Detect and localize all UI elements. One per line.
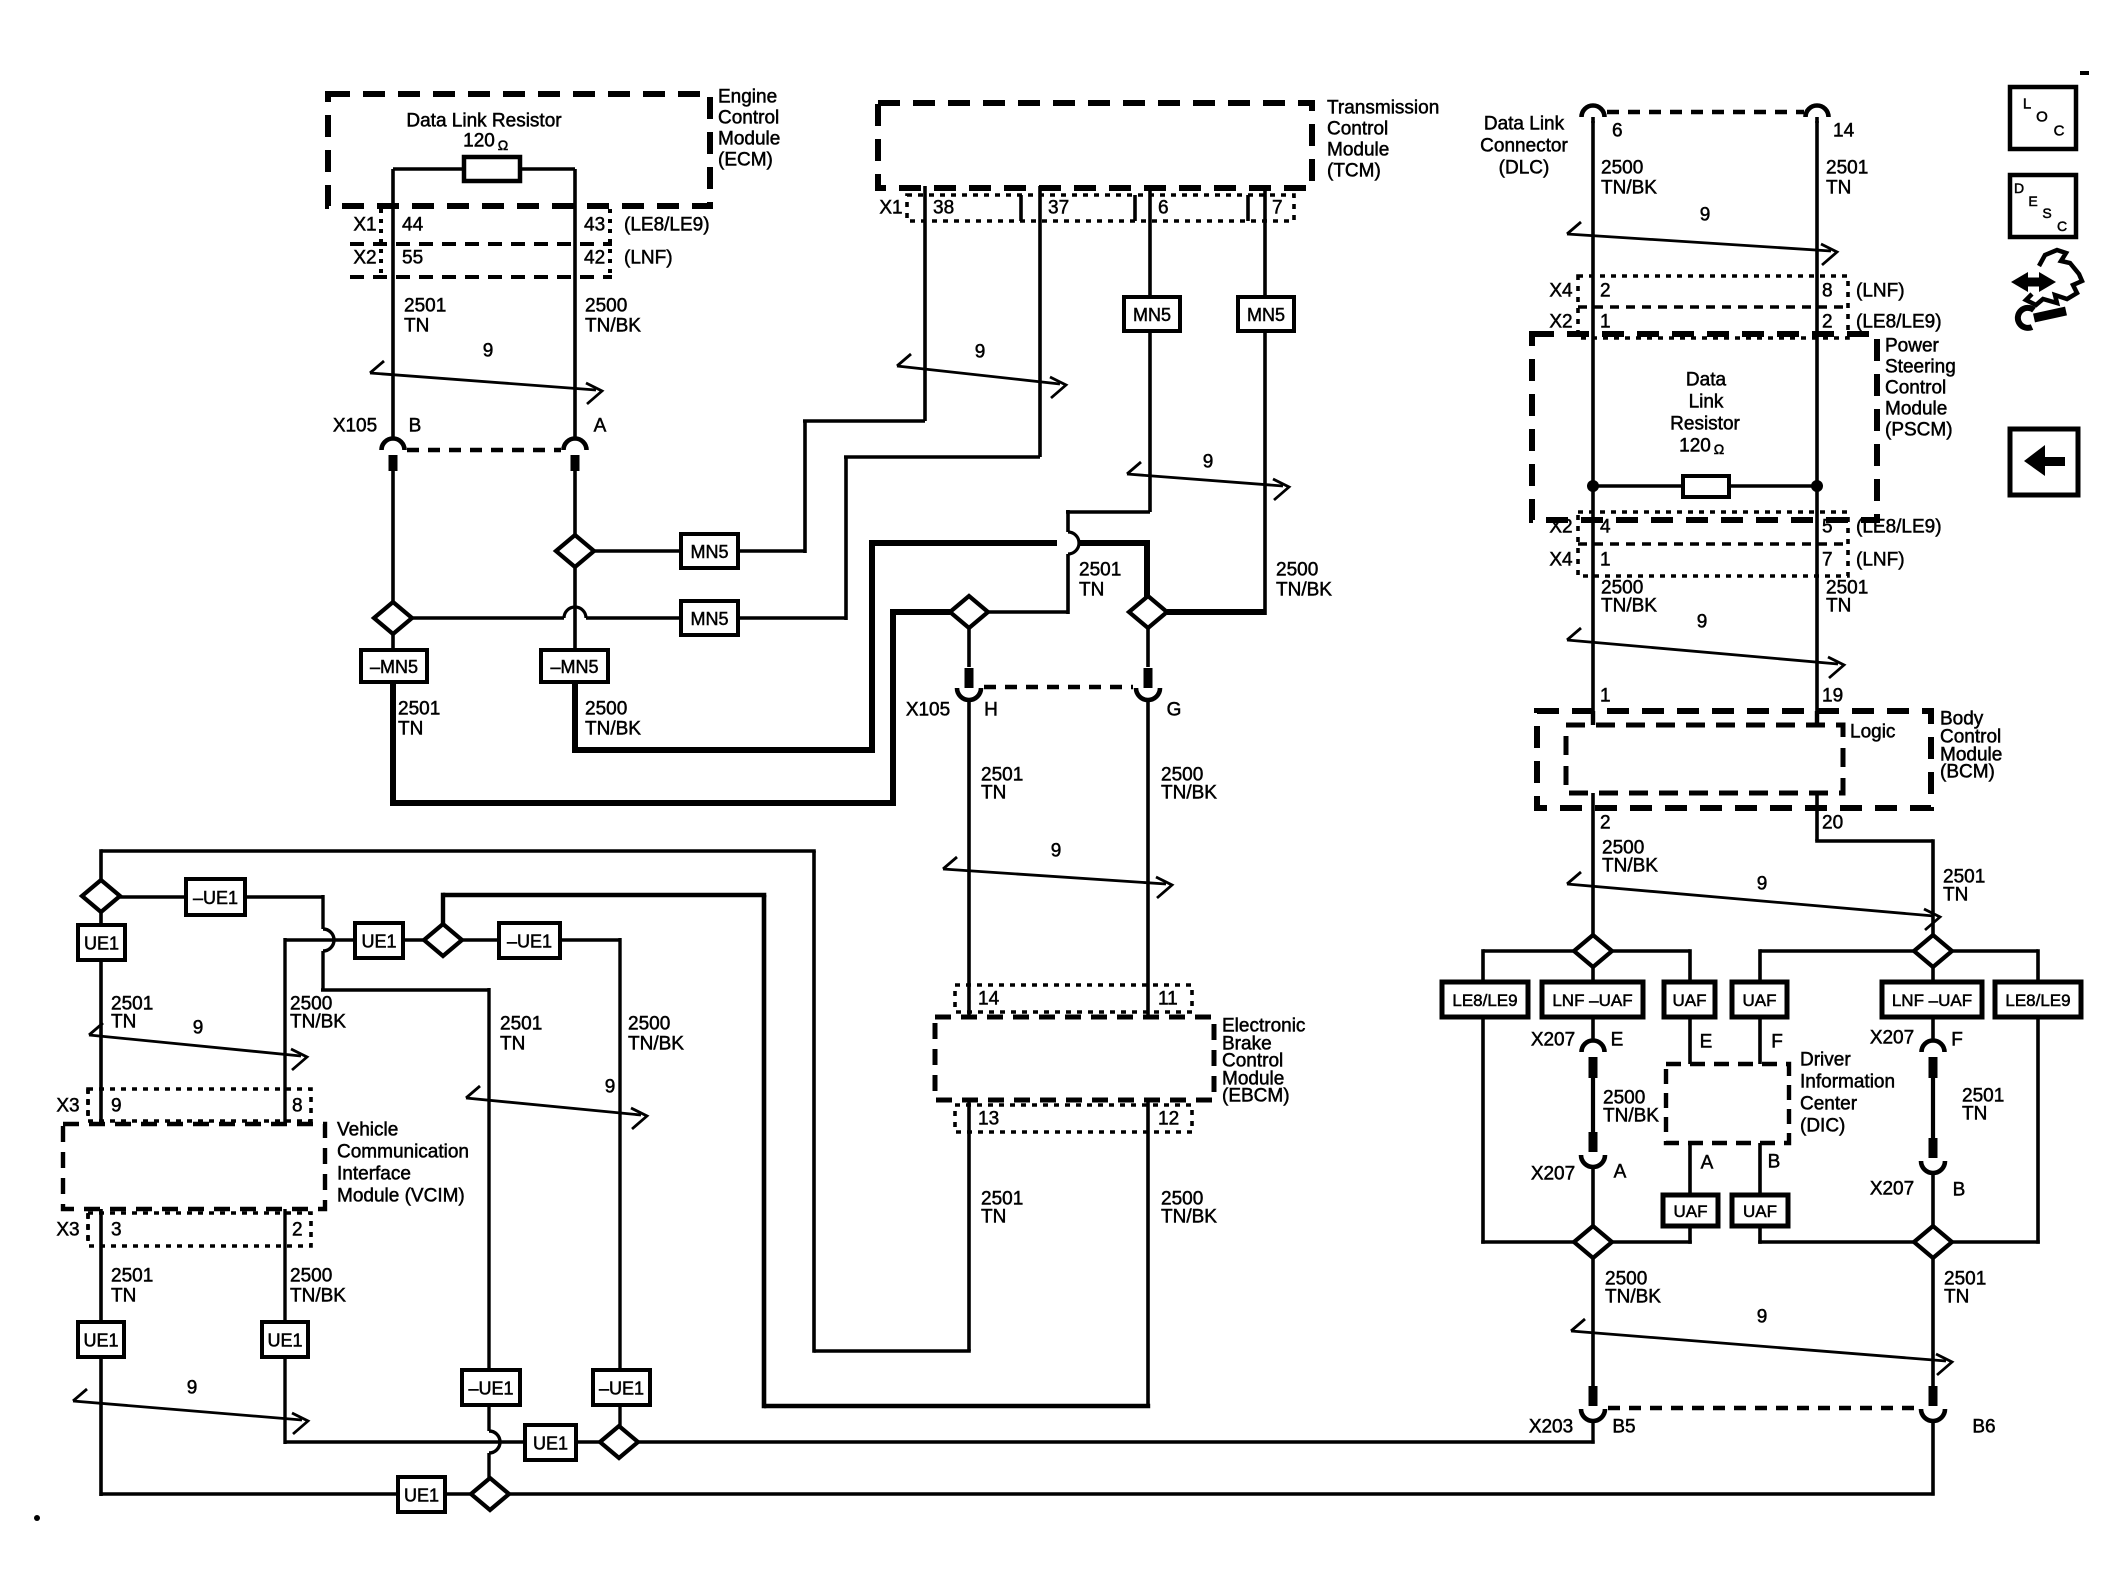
- svg-text:2500: 2500: [585, 296, 627, 317]
- svg-text:9: 9: [1700, 205, 1711, 226]
- svg-text:F: F: [1951, 1030, 1963, 1051]
- svg-text:Center: Center: [1800, 1094, 1858, 1115]
- wire 2501 TN from ECM pin 44/55 down to X105 B: [391, 169, 395, 439]
- svg-text:–MN5: –MN5: [370, 657, 418, 677]
- in-line connector UE1 (2501 bottom): [78, 1322, 124, 1357]
- svg-text:Communication: Communication: [337, 1142, 469, 1163]
- svg-text:–MN5: –MN5: [550, 657, 598, 677]
- svg-text:X1: X1: [879, 198, 902, 219]
- svg-text:2501: 2501: [1826, 158, 1868, 179]
- svg-text:(EBCM): (EBCM): [1222, 1086, 1290, 1107]
- wire 2500 TN/BK from ECM pin 43/42 down to X105 A: [573, 169, 577, 439]
- dashed link X105 B-A: [407, 448, 561, 453]
- svg-text:B: B: [1953, 1180, 1966, 1201]
- svg-text:(ECM): (ECM): [718, 150, 773, 171]
- wire: -UE1 drop to splice S12: [618, 1405, 621, 1428]
- connector X203 pin B5 (pin + cup): [1589, 1386, 1598, 1406]
- VCIM pin row top (X3 9/8): [88, 1089, 311, 1121]
- svg-text:UE1: UE1: [533, 1434, 568, 1454]
- wire 2501 TN UE1 down to B6 rail: [99, 1357, 103, 1496]
- twisted pair marker 9 (ECM wires): [370, 373, 596, 390]
- svg-text:2501: 2501: [404, 296, 446, 317]
- svg-text:X105: X105: [333, 416, 377, 437]
- wire: ECM resistor left lead: [393, 167, 464, 171]
- wire: X207 B to splice S10: [1931, 1173, 1935, 1228]
- svg-text:2500: 2500: [1601, 158, 1643, 179]
- svg-text:–UE1: –UE1: [507, 932, 552, 952]
- svg-text:X2: X2: [353, 248, 376, 269]
- svg-text:TN/BK: TN/BK: [290, 1286, 346, 1307]
- icon: LOC box: [2010, 87, 2076, 149]
- option tag UAF (DIC B): [1732, 1195, 1788, 1226]
- svg-text:Link: Link: [1689, 392, 1724, 413]
- svg-text:X203: X203: [1529, 1417, 1573, 1438]
- PSCM pin rows X4/X2 (2/8, 1/2): [1578, 276, 1848, 338]
- svg-text:(LNF): (LNF): [1856, 281, 1905, 302]
- in-line connector MN5 (TCM pin 6): [1124, 297, 1180, 331]
- svg-text:4: 4: [1600, 517, 1611, 538]
- wire: S1 down to -MN5: [391, 634, 395, 650]
- svg-text:1: 1: [1600, 550, 1611, 571]
- svg-text:14: 14: [1833, 121, 1855, 142]
- svg-text:MN5: MN5: [1247, 305, 1285, 325]
- wire: S4 to TCM pin 7: [1167, 609, 1265, 615]
- svg-text:L: L: [2023, 96, 2031, 113]
- in-line connector UE1 (2501 VCIM): [78, 925, 125, 960]
- junction dot left (PSCM resistor): [1587, 480, 1599, 492]
- wire: PSCM resistor leads: [1593, 484, 1683, 488]
- svg-text:9: 9: [1757, 874, 1768, 895]
- wire 2500 TN/BK from EBCM pin 12: [1146, 1100, 1150, 1406]
- svg-text:X207: X207: [1531, 1030, 1575, 1051]
- PSCM pin rows X2/X4 (4/5, 1/7): [1578, 512, 1848, 576]
- bypass connector -UE1 (2500): [499, 923, 560, 958]
- svg-text:–UE1: –UE1: [193, 888, 238, 908]
- svg-text:TN/BK: TN/BK: [1601, 178, 1657, 199]
- wire 2500 TN/BK corner to VCIM pin 8: [283, 938, 286, 1124]
- wire 2500 TN/BK VCIM pin 2 down: [283, 1209, 286, 1322]
- connector X105 pin A (half circle + pin): [564, 439, 587, 451]
- splice S2 (diamond on 2500 at y551): [556, 535, 594, 567]
- dashed link X203 B5-B6: [1608, 1406, 1918, 1411]
- svg-text:TN: TN: [111, 1286, 136, 1307]
- svg-text:F: F: [1771, 1032, 1783, 1053]
- svg-text:43: 43: [584, 215, 605, 236]
- svg-text:UAF: UAF: [1743, 1202, 1777, 1221]
- twisted pair marker 9 (DLC wires): [1567, 234, 1831, 251]
- svg-text:C: C: [2054, 123, 2065, 140]
- wire: S6 to -UE1 to drop: [462, 938, 499, 941]
- wire 2500 TN/BK UE1 down to B5 rail: [283, 1357, 286, 1444]
- connector X207 pin B (pin + cup): [1929, 1138, 1938, 1158]
- svg-text:2: 2: [1600, 813, 1611, 834]
- in-line connector UE1 (B5 rail): [525, 1425, 576, 1460]
- svg-text:C: C: [2057, 218, 2067, 234]
- svg-text:TN/BK: TN/BK: [585, 316, 641, 337]
- svg-text:Driver: Driver: [1800, 1050, 1851, 1071]
- svg-text:X207: X207: [1870, 1028, 1914, 1049]
- svg-text:Logic: Logic: [1850, 722, 1895, 743]
- EBCM pin row bottom (13/12): [955, 1105, 1192, 1132]
- bypass connector -UE1 (2501): [186, 879, 245, 915]
- twisted pair marker 9 (EBCM wires): [943, 869, 1166, 884]
- module box: Driver Information Center (DIC): [1666, 1064, 1789, 1143]
- wire: MN5 to corner: [738, 549, 805, 553]
- connector X207 pin E (half circle + pin): [1582, 1041, 1605, 1053]
- svg-text:TN/BK: TN/BK: [1605, 1287, 1661, 1308]
- splice S4 (diamond 2500 near X105 G): [1129, 596, 1167, 628]
- svg-text:1: 1: [1600, 686, 1611, 707]
- wire: riser to TCM pin 38: [803, 421, 807, 553]
- svg-text:Control: Control: [718, 108, 779, 129]
- module box: Body Control Module (BCM): [1537, 711, 1931, 808]
- svg-text:9: 9: [483, 341, 494, 362]
- svg-text:TN/BK: TN/BK: [628, 1034, 684, 1055]
- svg-text:2500: 2500: [628, 1014, 670, 1035]
- connector X105 pin H (pin + cup): [965, 668, 974, 688]
- svg-text:2: 2: [1822, 312, 1833, 333]
- wire: S7 right branch to UAF: [1612, 949, 1690, 953]
- connector DLC pin 6 (half circle): [1582, 106, 1605, 118]
- wire: S7 down to LNF-UAF: [1591, 967, 1595, 982]
- wire: UAF down to S9 branch: [1688, 1226, 1692, 1244]
- svg-text:UAF: UAF: [1673, 991, 1707, 1010]
- svg-text:Module (VCIM): Module (VCIM): [337, 1186, 465, 1207]
- twisted pair marker 9 (TCM 38/37): [897, 366, 1060, 384]
- svg-text:TN: TN: [1944, 1287, 1969, 1308]
- svg-text:A: A: [594, 416, 607, 437]
- junction dot right (PSCM resistor): [1811, 480, 1823, 492]
- wire 2501 TN DLC-14 to BCM pin 19: [1815, 121, 1819, 711]
- svg-text:Ω: Ω: [498, 137, 508, 153]
- svg-text:Steering: Steering: [1885, 357, 1956, 378]
- svg-text:2501: 2501: [111, 1266, 153, 1287]
- twisted pair marker 9 (X203 wires): [1571, 1331, 1946, 1361]
- svg-text:LE8/LE9: LE8/LE9: [1452, 991, 1517, 1010]
- wire 2501 TN bypass loop to splice S3: [390, 682, 396, 803]
- svg-text:Vehicle: Vehicle: [337, 1120, 398, 1141]
- svg-text:TN/BK: TN/BK: [1602, 856, 1658, 877]
- wire: S1 right toward MN5 (hops 2500 wire): [412, 616, 564, 620]
- twisted pair marker 9 (mid risers): [466, 1098, 641, 1115]
- splice S5 (diamond 2501 top-left): [82, 880, 120, 912]
- svg-text:LE8/LE9: LE8/LE9: [2005, 991, 2070, 1010]
- in-line connector MN5 (2500 to TCM 38): [681, 534, 738, 568]
- wire: left LE8/LE9 drop to S9 branch: [1481, 1017, 1485, 1244]
- svg-text:TN: TN: [1943, 885, 1968, 906]
- wire 2501 TN from EBCM pin 13: [967, 1100, 971, 1351]
- wire: S7 left branch to LE8/LE9: [1483, 949, 1574, 953]
- svg-text:X3: X3: [56, 1220, 79, 1241]
- logic box inside BCM: [1566, 725, 1843, 793]
- svg-text:6: 6: [1158, 198, 1169, 219]
- wire: DIC pin A to UAF: [1688, 1143, 1692, 1195]
- connector X105 pin B (half circle + pin): [382, 439, 405, 451]
- svg-text:TN: TN: [981, 1207, 1006, 1228]
- svg-text:44: 44: [402, 215, 424, 236]
- wire 2501 TN X207 F to B: [1931, 1078, 1935, 1138]
- svg-text:3: 3: [111, 1220, 122, 1241]
- bypass connector -MN5 (2501): [361, 650, 427, 682]
- svg-text:Data Link: Data Link: [1484, 114, 1565, 135]
- twisted pair marker 9 (below BCM): [1567, 884, 1934, 916]
- svg-text:X207: X207: [1870, 1179, 1914, 1200]
- svg-text:TN/BK: TN/BK: [1161, 1207, 1217, 1228]
- wire 2501 TN UE1 to VCIM pin 9: [99, 960, 103, 1124]
- option tag LNF -UAF (left): [1542, 982, 1643, 1017]
- EBCM pin row top (14/11): [955, 985, 1192, 1012]
- wire: UAF to DIC pin F: [1758, 1017, 1762, 1064]
- wire: DIC pin B to UAF: [1758, 1143, 1762, 1195]
- in-line connector UE1 (2500 bottom): [262, 1322, 308, 1357]
- svg-text:(LE8/LE9): (LE8/LE9): [1856, 517, 1942, 538]
- svg-text:13: 13: [978, 1109, 999, 1130]
- svg-text:TN: TN: [111, 1012, 136, 1033]
- svg-text:Ω: Ω: [1714, 441, 1724, 457]
- connector X105 pin G (pin + cup): [1144, 668, 1153, 688]
- wire: S5 to -UE1 and riser: [120, 895, 186, 898]
- bypass connector -MN5 (2500): [541, 650, 608, 682]
- svg-text:(DIC): (DIC): [1800, 1116, 1845, 1137]
- svg-text:TN/BK: TN/BK: [1161, 783, 1217, 804]
- splice S1 (diamond on 2501 at y618): [374, 602, 412, 634]
- wire: LNF-UAF to X207 E: [1591, 1017, 1595, 1041]
- svg-text:(LE8/LE9): (LE8/LE9): [1856, 312, 1942, 333]
- svg-text:LNF –UAF: LNF –UAF: [1892, 991, 1972, 1010]
- svg-text:TN/BK: TN/BK: [1601, 596, 1657, 617]
- svg-text:42: 42: [584, 248, 605, 269]
- svg-text:Information: Information: [1800, 1072, 1895, 1093]
- connector X207 pin A (pin + cup): [1589, 1132, 1598, 1152]
- wire 2500 TN/BK DLC-6 to BCM pin 1: [1591, 121, 1595, 711]
- icon: back arrow box: [2010, 429, 2078, 495]
- svg-text:E: E: [1611, 1030, 1624, 1051]
- connector X203 pin B6 (pin + cup): [1929, 1386, 1938, 1406]
- svg-text:TN: TN: [1826, 596, 1851, 617]
- svg-text:X207: X207: [1531, 1164, 1575, 1185]
- wire: -UE1 riser hops UE1 wire, to corner: [323, 929, 334, 951]
- wire: S8 right branch to LE8/LE9: [1952, 949, 2038, 953]
- svg-text:11: 11: [1158, 989, 1178, 1010]
- svg-text:MN5: MN5: [1133, 305, 1171, 325]
- svg-text:TN: TN: [1079, 580, 1104, 601]
- svg-text:B: B: [409, 416, 422, 437]
- svg-text:TN: TN: [1826, 178, 1851, 199]
- svg-text:2501: 2501: [500, 1014, 542, 1035]
- svg-text:(BCM): (BCM): [1940, 762, 1995, 783]
- svg-text:9: 9: [1203, 452, 1214, 473]
- svg-text:120: 120: [463, 131, 495, 152]
- svg-text:9: 9: [605, 1077, 616, 1098]
- wire 2500 TN/BK X207 E to A: [1591, 1078, 1595, 1132]
- wire B6 rail 2501 TN: [99, 1492, 398, 1496]
- svg-text:UE1: UE1: [361, 932, 396, 952]
- svg-text:9: 9: [187, 1378, 198, 1399]
- wire: S3 to riser of TCM pin 6: [988, 610, 1068, 614]
- wire 2501 TN X105 H to EBCM pin 14: [967, 700, 971, 1017]
- svg-text:Power: Power: [1885, 336, 1940, 357]
- icon: diagnostic double-arrow with wrench: [2011, 250, 2082, 328]
- in-line connector MN5 (TCM pin 7): [1238, 297, 1294, 331]
- svg-text:20: 20: [1822, 813, 1843, 834]
- svg-text:2: 2: [292, 1220, 303, 1241]
- svg-text:Module: Module: [1885, 399, 1947, 420]
- wire: S2 down to -MN5: [573, 567, 577, 650]
- svg-text:Module: Module: [718, 129, 780, 150]
- svg-text:TN: TN: [500, 1034, 525, 1055]
- wire: S8 left branch to UAF: [1760, 949, 1914, 953]
- svg-text:(LNF): (LNF): [1856, 550, 1905, 571]
- svg-text:B: B: [1768, 1152, 1781, 1173]
- splice S6 (diamond 2500 mid-row): [424, 924, 462, 956]
- wire: UE1 row horizontal: [285, 938, 355, 941]
- stray dot mark (bottom left): [34, 1515, 40, 1521]
- svg-text:6: 6: [1612, 121, 1623, 142]
- svg-text:X2: X2: [1549, 517, 1572, 538]
- wire: -UE1 drop to splice S11 (hops B5 rail): [487, 1405, 490, 1431]
- TCM pin row X1 (38/37/6/7): [907, 195, 1294, 221]
- wire 2501 TN X105 B to splice S1: [391, 471, 395, 602]
- in-line connector UE1 (2500 mid): [355, 923, 403, 958]
- wire: UAF down to S10 branch: [1758, 1226, 1762, 1244]
- svg-text:9: 9: [1757, 1307, 1768, 1328]
- svg-text:B6: B6: [1972, 1417, 1995, 1438]
- resistor R-PSCM 120 ohm body: [1683, 476, 1729, 497]
- wire: S3 down to X105 H: [967, 628, 971, 667]
- svg-text:2: 2: [1600, 281, 1611, 302]
- VCIM pin row bottom (X3 3/2): [88, 1213, 311, 1246]
- svg-text:E: E: [2028, 193, 2037, 209]
- splice S8 (diamond 2501 right): [1914, 935, 1952, 967]
- svg-text:2500: 2500: [1276, 560, 1318, 581]
- svg-text:38: 38: [933, 198, 954, 219]
- svg-text:UE1: UE1: [404, 1486, 439, 1506]
- svg-text:TN: TN: [1962, 1104, 1987, 1125]
- svg-text:(PSCM): (PSCM): [1885, 420, 1953, 441]
- module box: Power Steering Control Module (PSCM): [1532, 334, 1877, 520]
- svg-text:Interface: Interface: [337, 1164, 411, 1185]
- svg-text:UAF: UAF: [1743, 991, 1777, 1010]
- dashed link X105 H-G: [984, 685, 1133, 690]
- svg-text:H: H: [984, 700, 998, 721]
- svg-text:5: 5: [1822, 517, 1833, 538]
- in-line connector MN5 (2501 to TCM 37): [681, 601, 738, 635]
- ECM pin rows divider lines: [350, 242, 612, 246]
- splice S3 (diamond 2501 near X105 H): [950, 596, 988, 628]
- svg-text:TN: TN: [404, 316, 429, 337]
- module box: Transmission Control Module (TCM): [878, 103, 1312, 188]
- wire 2501 TN loop EBCM-13 to top-left rail: [814, 1349, 971, 1353]
- connector DLC pin 14 (half circle): [1806, 106, 1829, 118]
- svg-text:12: 12: [1158, 1109, 1179, 1130]
- wire: S5 down to UE1: [99, 912, 103, 925]
- svg-text:E: E: [1700, 1032, 1713, 1053]
- svg-text:B5: B5: [1612, 1417, 1635, 1438]
- splice S11 (diamond on B6 rail): [471, 1478, 509, 1510]
- svg-text:9: 9: [193, 1018, 204, 1039]
- wire 2500 TN/BK X105 G to EBCM pin 11: [1146, 700, 1150, 1017]
- option tag UAF (right): [1732, 982, 1787, 1017]
- dashed link DLC 6-14: [1607, 110, 1804, 115]
- svg-text:7: 7: [1272, 198, 1283, 219]
- svg-text:TN/BK: TN/BK: [1603, 1106, 1659, 1127]
- wire 2500 TN/BK bypass loop to splice S4: [572, 682, 578, 750]
- svg-text:MN5: MN5: [690, 542, 728, 562]
- svg-text:9: 9: [975, 342, 986, 363]
- svg-text:9: 9: [1697, 612, 1708, 633]
- wire 2501 TN VCIM pin 3 down: [99, 1209, 103, 1322]
- stray tick mark (top right): [2080, 71, 2089, 75]
- svg-text:X2: X2: [1549, 312, 1572, 333]
- svg-text:37: 37: [1048, 198, 1069, 219]
- svg-text:9: 9: [111, 1096, 122, 1117]
- svg-text:UE1: UE1: [267, 1331, 302, 1351]
- svg-text:Engine: Engine: [718, 87, 777, 108]
- svg-text:1: 1: [1600, 312, 1611, 333]
- svg-text:(TCM): (TCM): [1327, 161, 1381, 182]
- svg-text:9: 9: [1051, 841, 1062, 862]
- svg-text:TN: TN: [398, 719, 423, 740]
- svg-text:14: 14: [978, 989, 1000, 1010]
- svg-text:55: 55: [402, 248, 423, 269]
- icon: DESC box: [2010, 175, 2076, 237]
- svg-text:TN/BK: TN/BK: [1276, 580, 1332, 601]
- svg-text:Resistor: Resistor: [1670, 414, 1740, 435]
- wire: X207 A to splice S9: [1591, 1167, 1595, 1228]
- wire: S8 down to LNF-UAF: [1931, 967, 1935, 982]
- svg-text:X4: X4: [1549, 281, 1573, 302]
- svg-text:Connector: Connector: [1480, 136, 1568, 157]
- wire 2500 TN/BK X105 A to splice S2: [573, 471, 577, 535]
- svg-text:2501: 2501: [398, 699, 440, 720]
- wire: UAF to DIC pin E: [1688, 1017, 1692, 1064]
- wire 2501 TN BCM pin 20 jog to right riser: [1815, 793, 1819, 841]
- svg-text:120: 120: [1679, 436, 1711, 457]
- svg-text:UE1: UE1: [83, 1331, 118, 1351]
- wire: S2 to MN5 in-line connector: [594, 549, 681, 553]
- svg-text:8: 8: [292, 1096, 303, 1117]
- twisted pair marker 9 (VCIM bottom wires): [73, 1401, 302, 1420]
- wire: MN5 to riser, to TCM pin 37: [738, 616, 846, 620]
- svg-text:(LE8/LE9): (LE8/LE9): [624, 215, 710, 236]
- svg-text:X105: X105: [906, 700, 950, 721]
- option tag UAF (left): [1664, 982, 1715, 1017]
- svg-text:D: D: [2014, 180, 2024, 196]
- twisted pair marker 9 (TCM 6/7): [1127, 474, 1283, 486]
- module box: Electronic Brake Control Module (EBCM): [935, 1017, 1214, 1100]
- svg-text:UE1: UE1: [84, 934, 119, 954]
- svg-text:Transmission: Transmission: [1327, 98, 1439, 119]
- svg-text:X1: X1: [353, 215, 376, 236]
- svg-text:2501: 2501: [1079, 560, 1121, 581]
- option tag UAF (DIC A): [1663, 1195, 1718, 1226]
- wire B5 rail 2500 TN/BK: [285, 1440, 525, 1443]
- svg-text:2500: 2500: [585, 699, 627, 720]
- svg-text:19: 19: [1822, 686, 1843, 707]
- svg-text:Data Link Resistor: Data Link Resistor: [406, 111, 562, 132]
- svg-text:TN/BK: TN/BK: [290, 1012, 346, 1033]
- splice S10 (diamond 2501 lower): [1914, 1226, 1952, 1258]
- splice S9 (diamond 2500 lower): [1574, 1226, 1612, 1258]
- svg-text:S: S: [2042, 205, 2051, 221]
- svg-text:UAF: UAF: [1674, 1202, 1708, 1221]
- bypass connector -UE1 (2500 lower): [593, 1370, 650, 1405]
- module box: Engine Control Module (ECM): [328, 94, 710, 206]
- svg-text:–UE1: –UE1: [468, 1379, 513, 1399]
- svg-text:Data: Data: [1686, 370, 1727, 391]
- wire: LNF-UAF to X207 F: [1931, 1017, 1935, 1041]
- svg-text:A: A: [1614, 1162, 1627, 1183]
